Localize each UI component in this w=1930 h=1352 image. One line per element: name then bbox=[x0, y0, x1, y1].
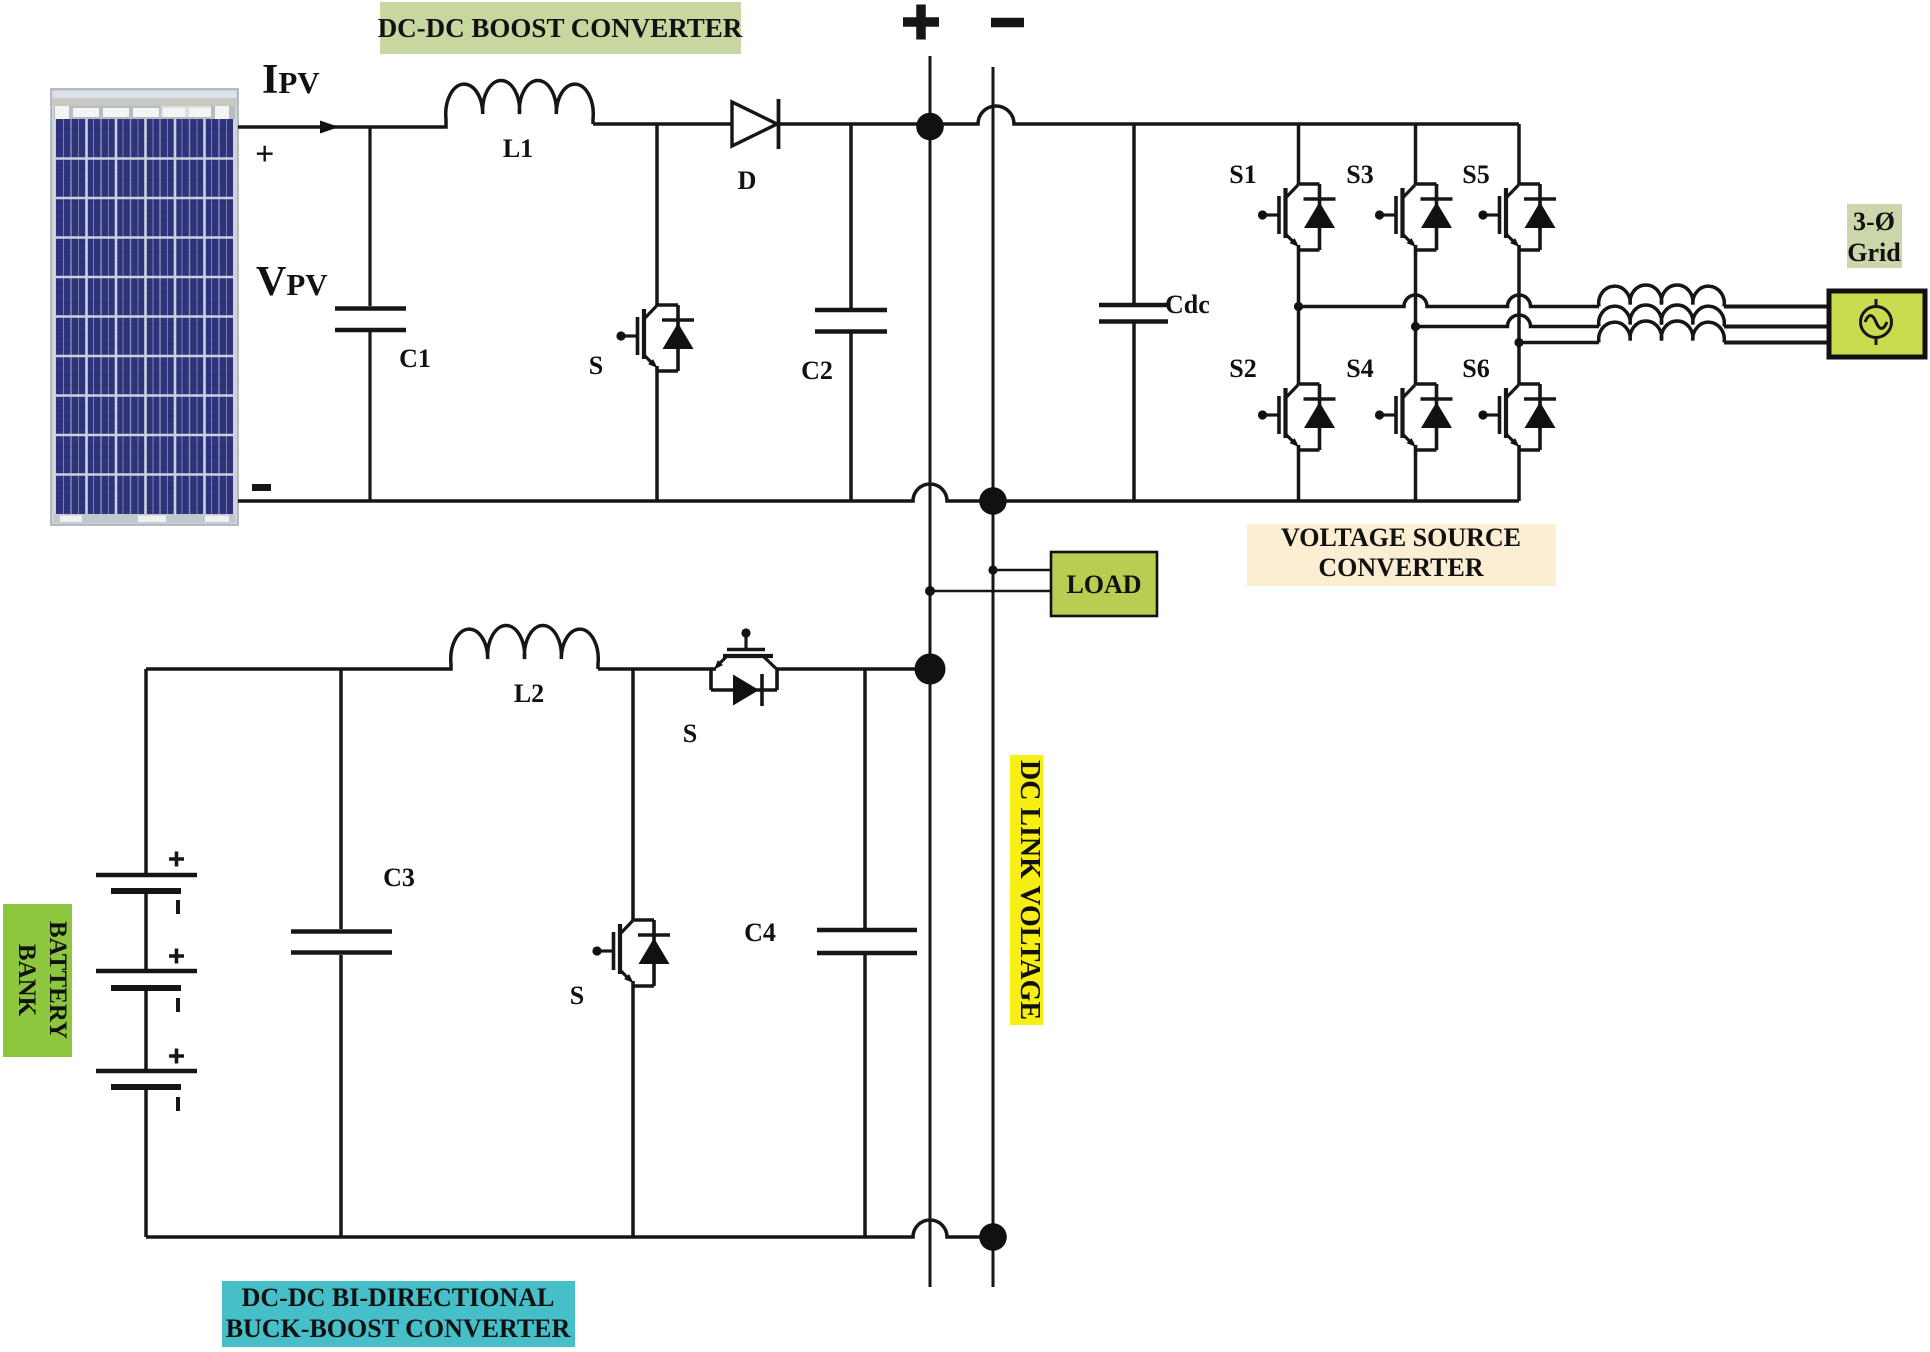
wire phase C bbox=[1519, 341, 1599, 345]
capacitor Cdc bbox=[1132, 124, 1136, 501]
svg-text:BATTERY: BATTERY bbox=[44, 921, 71, 1039]
node phase A junction bbox=[1294, 302, 1303, 311]
transistor S3 bbox=[1375, 183, 1453, 250]
inductor phase A bbox=[1599, 285, 1725, 307]
svg-text:L2: L2 bbox=[514, 679, 544, 708]
wire lower switch branch bbox=[631, 669, 635, 920]
wire buck-boost bottom rail with hop over + bus bbox=[146, 1220, 981, 1237]
transistor S1 bbox=[1258, 183, 1336, 250]
svg-text:D: D bbox=[738, 166, 757, 195]
battery bank wire bbox=[144, 669, 148, 1237]
wire phase A to grid bbox=[1724, 305, 1827, 309]
svg-text:DC LINK VOLTAGE: DC LINK VOLTAGE bbox=[1014, 760, 1046, 1020]
svg-text:VOLTAGE SOURCE: VOLTAGE SOURCE bbox=[1281, 523, 1521, 552]
wire phase A with hops bbox=[1299, 295, 1600, 307]
wire switch to + bus bbox=[777, 667, 917, 671]
wire + bus to LOAD bbox=[930, 590, 1051, 593]
svg-text:BUCK-BOOST CONVERTER: BUCK-BOOST CONVERTER bbox=[226, 1314, 571, 1343]
label + cell 3 bbox=[169, 1049, 184, 1064]
node LOAD tap on - bus bbox=[988, 565, 997, 574]
solar panel PV module bbox=[51, 89, 238, 525]
svg-text:VPV: VPV bbox=[256, 259, 328, 305]
svg-text:S3: S3 bbox=[1346, 160, 1373, 189]
transistor S4 bbox=[1375, 383, 1453, 450]
svg-text:S: S bbox=[570, 981, 584, 1010]
svg-text:L1: L1 bbox=[503, 134, 533, 163]
transistor S5 bbox=[1478, 183, 1556, 250]
svg-text:S: S bbox=[589, 351, 603, 380]
wire PV output with current arrow bbox=[238, 119, 446, 127]
label - cell 1 bbox=[176, 900, 180, 914]
label + cell 1 bbox=[169, 852, 184, 867]
battery cell 2 bbox=[96, 969, 197, 974]
svg-text:IPV: IPV bbox=[262, 57, 320, 103]
inductor phase B bbox=[1599, 305, 1725, 327]
svg-text:Grid: Grid bbox=[1847, 238, 1901, 267]
inductor L1 bbox=[446, 81, 593, 119]
grid box (AC source) bbox=[1829, 291, 1925, 357]
wire VSC leg C bbox=[1517, 124, 1521, 501]
label + (DC link positive) bbox=[903, 5, 939, 40]
label + cell 2 bbox=[169, 949, 184, 964]
wire - bus to LOAD bbox=[993, 569, 1051, 572]
svg-text:BANK: BANK bbox=[13, 944, 40, 1017]
label VOLTAGE SOURCE CONVERTER bbox=[1247, 524, 1556, 586]
node junction on - bus (bottom rail) bbox=[979, 487, 1007, 515]
LOAD box bbox=[1051, 552, 1157, 616]
svg-text:+: + bbox=[255, 136, 274, 173]
wire phase C to grid bbox=[1724, 341, 1827, 345]
label DC-DC BI-DIRECTIONAL BUCK-BOOST CONVERTER bbox=[222, 1281, 575, 1347]
battery cell 1 bbox=[96, 873, 197, 878]
label - (DC link negative) bbox=[991, 18, 1024, 28]
svg-text:Cdc: Cdc bbox=[1165, 290, 1210, 319]
transistor S6 bbox=[1478, 383, 1556, 450]
AC source symbol bbox=[1861, 307, 1892, 338]
wire L2 to switch bbox=[598, 667, 712, 671]
svg-text:DC-DC BOOST CONVERTER: DC-DC BOOST CONVERTER bbox=[378, 13, 743, 43]
positive DC bus bbox=[929, 56, 932, 1287]
negative DC bus bbox=[992, 67, 995, 1287]
svg-text:S2: S2 bbox=[1229, 354, 1256, 383]
label - (PV negative terminal) bbox=[252, 484, 271, 491]
svg-text:S6: S6 bbox=[1462, 354, 1489, 383]
transistor S (buck-boost lower) bbox=[592, 919, 670, 986]
wire top rail to VSC with hop over - bus bbox=[941, 106, 1519, 124]
node phase B junction bbox=[1411, 322, 1420, 331]
label DC-DC BOOST CONVERTER bbox=[380, 2, 741, 54]
wire L1 to diode bbox=[593, 122, 732, 126]
inductor L2 bbox=[451, 626, 598, 664]
capacitor C4 bbox=[863, 669, 867, 1237]
wire diode to + bus bbox=[777, 122, 917, 126]
wire boost bottom rail with hop over + bus bbox=[238, 484, 981, 501]
svg-text:C3: C3 bbox=[383, 863, 415, 892]
label BATTERY BANK bbox=[3, 904, 72, 1057]
capacitor C2 bbox=[849, 124, 853, 501]
label - cell 3 bbox=[176, 1097, 180, 1111]
svg-text:S1: S1 bbox=[1229, 160, 1256, 189]
node junction on + bus (buck-boost rail) bbox=[915, 654, 946, 685]
node junction on - bus (buck-boost bottom rail) bbox=[979, 1223, 1007, 1251]
wire bottom rail to VSC bbox=[1005, 499, 1519, 503]
label 3-phase grid bbox=[1847, 204, 1902, 268]
svg-text:S: S bbox=[683, 719, 697, 748]
diode D bbox=[732, 102, 777, 146]
capacitor C3 bbox=[339, 669, 343, 1237]
wire phase B to grid bbox=[1724, 325, 1827, 329]
inductor phase C bbox=[1599, 321, 1725, 343]
node phase C junction bbox=[1514, 338, 1523, 347]
battery cell 3 bbox=[96, 1069, 197, 1074]
wire buck-boost top rail left bbox=[146, 664, 451, 669]
svg-text:C1: C1 bbox=[399, 344, 431, 373]
capacitor C1 bbox=[335, 127, 406, 501]
svg-text:S4: S4 bbox=[1346, 354, 1373, 383]
label DC LINK VOLTAGE bbox=[1010, 755, 1043, 1025]
svg-text:3-Ø: 3-Ø bbox=[1853, 207, 1895, 236]
svg-text:DC-DC BI-DIRECTIONAL: DC-DC BI-DIRECTIONAL bbox=[242, 1283, 555, 1312]
label - cell 2 bbox=[176, 998, 180, 1012]
transistor S (boost IGBT) bbox=[655, 124, 659, 306]
wire VSC leg B bbox=[1414, 124, 1418, 501]
node junction on + bus (top rail) bbox=[916, 113, 944, 141]
transistor S (buck-boost upper, horizontal) bbox=[711, 628, 778, 706]
wire VSC leg A bbox=[1297, 124, 1301, 501]
svg-text:C2: C2 bbox=[801, 356, 833, 385]
wire phase B with hop bbox=[1416, 315, 1600, 327]
svg-text:C4: C4 bbox=[744, 918, 776, 947]
svg-text:CONVERTER: CONVERTER bbox=[1318, 553, 1483, 582]
transistor S2 bbox=[1258, 383, 1336, 450]
svg-text:LOAD: LOAD bbox=[1066, 570, 1141, 599]
svg-text:S5: S5 bbox=[1462, 160, 1489, 189]
node LOAD tap on + bus bbox=[925, 586, 935, 596]
